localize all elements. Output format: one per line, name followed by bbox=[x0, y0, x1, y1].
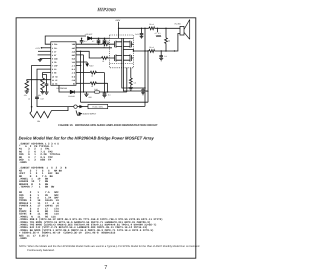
ground below R1 bbox=[25, 91, 29, 93]
wire output top to speaker bbox=[119, 27, 181, 29]
capacitor C9 bbox=[103, 93, 107, 94]
node on rail at C2 bbox=[98, 38, 99, 39]
IC U1 HIP2060AB package box bbox=[51, 42, 76, 86]
zobel stub resistor R7 bbox=[157, 28, 159, 32]
wire gate row 1 bbox=[76, 43, 103, 45]
svg-text:5.6: 5.6 bbox=[134, 82, 137, 85]
generator connector pad bbox=[82, 106, 88, 108]
ground below C2 bbox=[97, 43, 101, 45]
inductor L1 bbox=[94, 91, 100, 93]
capacitor C4 on vertical bbox=[80, 38, 84, 44]
svg-text:2 IN-: 2 IN- bbox=[52, 47, 58, 50]
note block bbox=[19, 245, 200, 252]
wire pin5 to ground bbox=[40, 57, 51, 59]
ground below C8 bbox=[141, 93, 145, 95]
svg-text:.ENDS: .ENDS bbox=[19, 161, 27, 164]
wire tie vertical bbox=[144, 28, 146, 106]
MOSFET array dashed package bbox=[110, 35, 134, 68]
wire bottom chain bbox=[59, 85, 70, 92]
svg-text:+50V: +50V bbox=[115, 19, 121, 22]
resistor R9 below array bbox=[129, 68, 132, 88]
svg-text:B-D: B-D bbox=[72, 75, 76, 78]
wire pin row stub B bbox=[76, 55, 84, 92]
page border box bbox=[16, 18, 196, 258]
wire pin row to 12V arrow bbox=[76, 62, 87, 64]
svg-text:+12V: +12V bbox=[35, 47, 40, 50]
transistor Q4 bbox=[123, 54, 133, 61]
svg-text:1N4148: 1N4148 bbox=[68, 95, 74, 98]
capacitor C7 below bottom output bbox=[159, 51, 163, 58]
wire drop 4 bbox=[107, 83, 109, 92]
node dots bottom output bbox=[174, 50, 175, 51]
svg-text:FUNC. GEN.: FUNC. GEN. bbox=[92, 106, 103, 109]
ground at pin5 bbox=[38, 58, 42, 61]
resistor R4 bottom left bbox=[30, 107, 68, 118]
svg-text:1.8A: 1.8A bbox=[94, 88, 98, 91]
wire generator to rail bbox=[108, 105, 145, 107]
resistor RG4 bbox=[90, 82, 107, 85]
resistor R6 on bottom output bbox=[149, 50, 155, 53]
ground below C10 bbox=[44, 92, 48, 94]
svg-text:4.7 0.1: 4.7 0.1 bbox=[155, 32, 161, 35]
R7 zig marks bbox=[156, 36, 161, 37]
wire jack to generator bbox=[77, 106, 80, 108]
resistor R8 vertical 33ohm bbox=[165, 28, 168, 51]
svg-text:6 FB: 6 FB bbox=[52, 61, 57, 64]
svg-text:FIGURE 10. HIP2060AB 60W AUDI: FIGURE 10. HIP2060AB 60W AUDIO AMPLIFIER… bbox=[58, 124, 158, 127]
ground below R9 bbox=[129, 88, 133, 90]
ground below C6 bbox=[140, 36, 144, 38]
capacitor C8 bbox=[141, 88, 145, 93]
wire diode to inductor bbox=[74, 91, 94, 93]
array inner dashed row bbox=[110, 62, 134, 64]
transistor Q3 bbox=[123, 41, 133, 48]
ground below C7 bbox=[159, 58, 163, 60]
svg-text:10k: 10k bbox=[38, 94, 41, 97]
svg-text:33: 33 bbox=[168, 40, 170, 43]
wire loop B pin7 bbox=[37, 69, 74, 107]
12V power arrow bbox=[86, 64, 88, 66]
wire pin3 stub bbox=[38, 50, 51, 52]
svg-text:.ENDS: .ENDS bbox=[19, 237, 27, 240]
svg-text:600: 600 bbox=[89, 96, 92, 99]
svg-text:+12 VDC: +12 VDC bbox=[85, 33, 93, 36]
IC U1 left column pin labels bbox=[52, 43, 59, 85]
node output B bbox=[133, 50, 135, 52]
svg-text:Continuously Saturated.: Continuously Saturated. bbox=[27, 249, 55, 252]
svg-text:AHI: AHI bbox=[72, 47, 75, 50]
svg-text:10k: 10k bbox=[37, 120, 40, 123]
svg-text:0.2: 0.2 bbox=[146, 90, 149, 93]
resistor R2 vertical bbox=[41, 78, 45, 92]
wire drop 3 bbox=[104, 73, 106, 93]
wire array bottom A bbox=[122, 68, 145, 88]
resistor RG2 bbox=[102, 57, 110, 60]
transistor Q1 bbox=[110, 41, 122, 48]
svg-text:RL=8Ω: RL=8Ω bbox=[175, 22, 182, 25]
svg-text:RL=4: RL=4 bbox=[149, 23, 153, 26]
wire upper rail bbox=[81, 101, 148, 103]
svg-text:10: 10 bbox=[91, 74, 93, 77]
audio input arrow bbox=[79, 113, 82, 115]
svg-text:VSS: VSS bbox=[72, 61, 76, 64]
ground hanging bbox=[84, 92, 88, 97]
wire gate row 4 bbox=[76, 82, 90, 84]
svg-text:AUDIO INPUT: AUDIO INPUT bbox=[83, 113, 97, 116]
wire pin8 to R2 bbox=[43, 73, 51, 78]
svg-text:1 IN+: 1 IN+ bbox=[52, 43, 59, 46]
svg-text:HIP2060AB: HIP2060AB bbox=[57, 87, 68, 90]
resistor RG1 bbox=[103, 43, 110, 46]
wire array bottom B bbox=[123, 68, 148, 91]
wire bus vertical A bbox=[80, 51, 82, 102]
wire output bottom bbox=[134, 34, 181, 52]
svg-text:0.47: 0.47 bbox=[41, 97, 45, 100]
svg-text:A-S: A-S bbox=[72, 65, 76, 68]
wire pin4 stub bbox=[38, 54, 51, 56]
ground below C9 bbox=[103, 95, 107, 97]
svg-text:9 RE: 9 RE bbox=[52, 72, 57, 75]
wire loop A pin6 bbox=[32, 66, 51, 112]
svg-text:HIP2060: HIP2060 bbox=[96, 7, 116, 13]
input jack circle bbox=[74, 105, 77, 108]
wire gate row 3 bbox=[76, 72, 90, 74]
capacitor C6 from top output bbox=[140, 28, 144, 36]
wire pin10 to R1 bbox=[27, 80, 51, 81]
svg-text:47k: 47k bbox=[24, 94, 27, 97]
wire source row 1 bbox=[76, 47, 112, 49]
svg-text:Device Model Net list for the: Device Model Net list for the HIP2060AB … bbox=[19, 136, 155, 141]
speaker LS1 bbox=[180, 20, 190, 40]
resistor R1 vertical bbox=[25, 81, 29, 91]
svg-text:+12V: +12V bbox=[89, 64, 94, 67]
wire output to node B bbox=[123, 50, 133, 52]
node on rail at C3 bbox=[104, 38, 105, 39]
svg-text:A-D: A-D bbox=[72, 72, 76, 75]
wire top-left wrap to pin 1 bbox=[45, 36, 86, 44]
svg-text:12 NC: 12 NC bbox=[52, 82, 59, 85]
svg-text:RL=4: RL=4 bbox=[149, 46, 153, 49]
capacitor C3 bbox=[103, 38, 107, 42]
node terminal dot bbox=[41, 47, 43, 49]
arrow into generator bbox=[80, 106, 83, 108]
+50V supply wire bbox=[118, 22, 120, 38]
ground below R2 bbox=[40, 92, 44, 94]
node at R4 top bbox=[31, 106, 33, 108]
capacitor C2 bbox=[97, 38, 101, 42]
netlist text block bbox=[19, 142, 163, 240]
wire center bus pair bbox=[122, 38, 124, 68]
wire pin stub row bbox=[76, 65, 81, 67]
svg-text:0.01: 0.01 bbox=[135, 33, 139, 36]
svg-text:0.1: 0.1 bbox=[164, 55, 167, 58]
capacitor C5 on loop B bbox=[35, 97, 39, 98]
array top rail bbox=[110, 37, 134, 39]
svg-text:0.1: 0.1 bbox=[108, 94, 111, 97]
svg-text:BHI: BHI bbox=[72, 54, 75, 57]
svg-text:10: 10 bbox=[91, 85, 93, 88]
function generator box bbox=[88, 104, 108, 108]
capacitor C10 bbox=[43, 74, 49, 91]
wire array bottom C bbox=[126, 68, 128, 92]
diode D1 bbox=[88, 37, 92, 40]
svg-text:10 SD: 10 SD bbox=[52, 75, 59, 78]
svg-text:7 CMP: 7 CMP bbox=[52, 65, 59, 68]
svg-text:NOTE: When the Metals and the: NOTE: When the Metals and the the HIP206… bbox=[19, 245, 200, 248]
svg-text:4 RT: 4 RT bbox=[52, 54, 57, 57]
wire inductor right bbox=[100, 91, 127, 93]
wire diode to +50V rail bbox=[92, 37, 110, 39]
wire audio input branch bbox=[76, 111, 80, 116]
ground below C3 bbox=[103, 43, 107, 45]
resistor RG3 bbox=[90, 71, 104, 74]
svg-text:.TEMPER 7 1 BW BW: .TEMPER 7 1 BW BW bbox=[19, 186, 55, 189]
wire gate row 2 with jog bbox=[76, 51, 102, 58]
resistor R5 on top output bbox=[149, 27, 155, 30]
svg-text:0.1: 0.1 bbox=[84, 40, 87, 43]
node drop 4 bbox=[107, 91, 108, 92]
wire +12V input label lead bbox=[42, 47, 51, 49]
diode D2 bbox=[70, 90, 74, 93]
wire tie vertical 2 bbox=[147, 51, 149, 102]
IC U1 right column pin labels bbox=[72, 43, 76, 85]
svg-text:7: 7 bbox=[104, 265, 107, 271]
svg-text:VDD: VDD bbox=[72, 43, 76, 46]
svg-text:1k: 1k bbox=[28, 97, 30, 100]
svg-text:4.7: 4.7 bbox=[92, 40, 95, 43]
transistor Q2 bbox=[110, 54, 122, 61]
svg-text:10: 10 bbox=[102, 60, 104, 63]
